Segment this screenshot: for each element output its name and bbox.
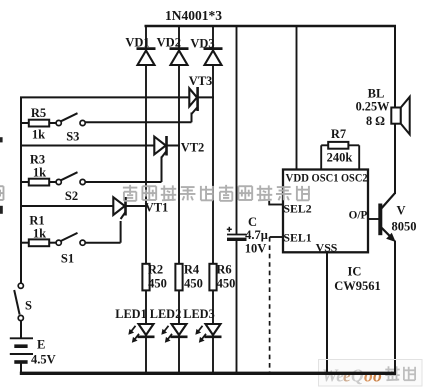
label 1N4001*3 bbox=[165, 8, 222, 23]
wire R2 to LED bbox=[145, 290, 147, 323]
label VD2 bbox=[157, 36, 181, 50]
op-amp IC CW9561 body bbox=[283, 170, 368, 253]
svg-text:8 Ω: 8 Ω bbox=[366, 114, 385, 128]
wire LED2 to ground rail bbox=[178, 337, 180, 373]
label pin SEL2 bbox=[283, 202, 311, 216]
WeeQoo watermark logo box bbox=[319, 360, 423, 387]
wire top rail to speaker bbox=[394, 25, 396, 108]
diode VD1 bbox=[137, 49, 156, 65]
wire S2 to VT2 gate bbox=[85, 157, 161, 183]
label LED2 bbox=[150, 307, 181, 321]
thyristor VT2 bbox=[154, 136, 166, 158]
wire emitter to ground rail bbox=[394, 241, 396, 374]
wire speaker to collector bbox=[394, 124, 396, 194]
switch S bbox=[14, 283, 23, 320]
label BL bbox=[368, 87, 385, 101]
wire top rail to VD1 bbox=[145, 25, 147, 49]
wire S1 to VT1 gate bbox=[85, 221, 120, 243]
svg-text:VD1: VD1 bbox=[125, 36, 149, 50]
svg-text:R4: R4 bbox=[184, 263, 200, 277]
svg-text:S1: S1 bbox=[61, 252, 74, 266]
label V bbox=[396, 204, 405, 218]
LED LED2 bbox=[162, 324, 188, 342]
svg-text:LED3: LED3 bbox=[183, 307, 214, 321]
svg-text:R3: R3 bbox=[30, 153, 45, 167]
svg-text:1k: 1k bbox=[33, 166, 46, 180]
label VT3 bbox=[189, 74, 213, 88]
label LED1 bbox=[115, 307, 146, 321]
label S2 bbox=[65, 189, 78, 203]
label pin VDD bbox=[286, 172, 310, 185]
svg-text:We: We bbox=[322, 366, 344, 386]
label IC bbox=[348, 265, 362, 279]
wire top rail to VDD pin bbox=[296, 25, 298, 170]
wire VT1 anode from left rail bbox=[20, 205, 114, 207]
label pin VSS bbox=[316, 241, 338, 255]
wire VT2 anode from left rail bbox=[20, 145, 155, 147]
label R4 value 450 bbox=[184, 277, 203, 291]
WeeQoo logo text bbox=[322, 366, 416, 386]
wire S3 to VT3 gate bbox=[85, 113, 191, 123]
svg-text:Q: Q bbox=[351, 366, 364, 386]
label S bbox=[25, 299, 32, 313]
label C bbox=[248, 215, 257, 229]
wire VD2 branch down bbox=[178, 64, 180, 264]
label R5 bbox=[31, 106, 46, 120]
svg-text:S: S bbox=[25, 299, 32, 313]
label pin OSC1 bbox=[312, 172, 339, 185]
watermark partial char at left edge bbox=[0, 186, 3, 200]
svg-text:o: o bbox=[373, 366, 382, 386]
label VD1 bbox=[125, 36, 149, 50]
label R3 value 1k bbox=[33, 166, 46, 180]
wire top rail to capacitor C bbox=[236, 25, 238, 234]
label V part 8050 bbox=[392, 220, 417, 234]
label VD3 bbox=[190, 37, 214, 51]
label VT2 bbox=[181, 141, 205, 155]
label S1 bbox=[61, 252, 74, 266]
svg-text:10V: 10V bbox=[245, 242, 267, 256]
label pin SEL1 bbox=[283, 231, 311, 245]
thyristor VT3 bbox=[189, 87, 197, 114]
svg-text:0.25W: 0.25W bbox=[356, 100, 391, 114]
wire VD1 branch down bbox=[145, 64, 147, 264]
scan speck 2 bbox=[0, 206, 3, 214]
wire top rail to VD2 bbox=[178, 25, 180, 49]
thyristor VT1 bbox=[113, 197, 125, 219]
diode VD3 bbox=[204, 49, 223, 65]
label pin OSC2 bbox=[341, 172, 368, 185]
wire left rail to R1 bbox=[20, 242, 29, 244]
svg-text:1k: 1k bbox=[33, 227, 46, 241]
svg-text:VDD: VDD bbox=[286, 172, 310, 185]
svg-text:V: V bbox=[396, 204, 405, 218]
svg-text:SEL2: SEL2 bbox=[283, 202, 311, 216]
LED LED3 bbox=[196, 324, 222, 342]
svg-text:4.7μ: 4.7μ bbox=[245, 228, 268, 242]
svg-text:S2: S2 bbox=[65, 189, 78, 203]
label S3 bbox=[66, 130, 79, 144]
wire top rail to VD3 bbox=[212, 25, 214, 49]
svg-text:VD2: VD2 bbox=[157, 36, 181, 50]
svg-text:4.5V: 4.5V bbox=[31, 353, 56, 367]
label VT1 bbox=[145, 201, 169, 215]
svg-text:VD3: VD3 bbox=[190, 37, 214, 51]
label R1 bbox=[29, 214, 44, 228]
wire R5 to S3 bbox=[49, 122, 56, 124]
label pin O/P bbox=[349, 210, 368, 222]
svg-text:1k: 1k bbox=[32, 128, 45, 142]
wire R1 to S1 bbox=[49, 242, 56, 244]
label R6 bbox=[216, 263, 231, 277]
wire VT2 cathode to VD2 branch bbox=[167, 145, 181, 147]
wire left rail bbox=[20, 97, 22, 284]
svg-text:LED2: LED2 bbox=[150, 307, 181, 321]
svg-text:450: 450 bbox=[148, 277, 167, 291]
label R4 bbox=[184, 263, 200, 277]
wire bottom ground rail bbox=[20, 372, 396, 375]
wire emitter over logo segment bbox=[394, 360, 396, 373]
resistor R7 bbox=[328, 142, 348, 149]
wire capacitor to ground rail bbox=[236, 241, 238, 373]
wire SEL1 stub bbox=[270, 236, 283, 238]
wire R4 to LED bbox=[178, 290, 180, 323]
label R2 bbox=[148, 263, 163, 277]
svg-text:240k: 240k bbox=[327, 151, 353, 165]
wire battery to ground rail bbox=[20, 362, 22, 373]
svg-text:e: e bbox=[343, 366, 351, 386]
wire LED1 to ground rail bbox=[145, 337, 147, 373]
svg-text:R1: R1 bbox=[29, 214, 44, 228]
wire VT1 cathode to VD1 branch bbox=[126, 205, 148, 207]
svg-text:450: 450 bbox=[217, 277, 236, 291]
label IC part CW9561 bbox=[334, 279, 381, 293]
diode VD2 bbox=[170, 49, 189, 65]
svg-text:R5: R5 bbox=[31, 106, 46, 120]
svg-text:O/P: O/P bbox=[349, 210, 368, 222]
svg-text:R6: R6 bbox=[216, 263, 231, 277]
wire top supply rail bbox=[145, 25, 397, 28]
svg-text:SEL1: SEL1 bbox=[283, 231, 311, 245]
svg-text:IC: IC bbox=[348, 265, 362, 279]
resistor R2 bbox=[142, 264, 149, 291]
wire dashed SEL1 to ground rail bbox=[269, 237, 271, 373]
label LED3 bbox=[183, 307, 214, 321]
LED LED1 bbox=[129, 324, 155, 342]
svg-text:BL: BL bbox=[368, 87, 385, 101]
label R6 value 450 bbox=[217, 277, 236, 291]
battery E bbox=[10, 338, 33, 362]
wire VT3 cathode to VD3 branch bbox=[198, 96, 215, 98]
svg-text:o: o bbox=[364, 366, 373, 386]
label C value 4.7u bbox=[245, 228, 268, 242]
wire OSC1 pin bbox=[321, 145, 328, 170]
switch S1 bbox=[56, 233, 85, 245]
svg-text:VT3: VT3 bbox=[189, 74, 213, 88]
speaker BL bbox=[391, 97, 409, 135]
label BL impedance 8 ohm bbox=[366, 114, 385, 128]
wire ground rail over logo bbox=[318, 372, 396, 375]
wire LED3 to ground rail bbox=[212, 337, 214, 373]
resistor R1 bbox=[29, 239, 49, 246]
label E bbox=[37, 338, 45, 352]
wire switch S to battery bbox=[20, 321, 22, 338]
wire left rail to R3 bbox=[20, 181, 29, 183]
wire VD3 branch down bbox=[212, 64, 214, 264]
svg-text:1N4001*3: 1N4001*3 bbox=[165, 8, 222, 23]
wire OSC2 pin bbox=[348, 145, 359, 170]
transistor V 8050 bbox=[379, 193, 395, 241]
svg-text:OSC1: OSC1 bbox=[312, 172, 339, 185]
wire VT3 anode from left rail bbox=[20, 96, 190, 98]
resistor R4 bbox=[175, 264, 182, 291]
label R3 bbox=[30, 153, 45, 167]
label E voltage 4.5V bbox=[31, 353, 56, 367]
svg-text:R2: R2 bbox=[148, 263, 163, 277]
svg-text:VT1: VT1 bbox=[145, 201, 169, 215]
svg-text:S3: S3 bbox=[66, 130, 79, 144]
wire SEL2 stub bbox=[269, 201, 283, 206]
capacitor C bbox=[227, 227, 247, 240]
label C voltage 10V bbox=[245, 242, 267, 256]
switch S2 bbox=[56, 172, 85, 184]
svg-text:E: E bbox=[37, 338, 45, 352]
label R1 value 1k bbox=[33, 227, 46, 241]
svg-text:R7: R7 bbox=[331, 127, 346, 141]
label R5 value 1k bbox=[32, 128, 45, 142]
svg-text:OSC2: OSC2 bbox=[341, 172, 368, 185]
svg-text:450: 450 bbox=[184, 277, 203, 291]
label R7 value 240k bbox=[327, 151, 353, 165]
svg-text:CW9561: CW9561 bbox=[334, 279, 381, 293]
wire O/P to transistor base bbox=[368, 218, 379, 220]
svg-text:C: C bbox=[248, 215, 257, 229]
svg-text:8050: 8050 bbox=[392, 220, 417, 234]
wire left rail to R5 bbox=[20, 122, 29, 124]
resistor R5 bbox=[29, 120, 49, 127]
wire R3 to S2 bbox=[49, 181, 56, 183]
wire VSS over logo segment bbox=[326, 360, 328, 373]
svg-text:LED1: LED1 bbox=[115, 307, 146, 321]
resistor R6 bbox=[209, 264, 216, 291]
resistor R3 bbox=[29, 179, 49, 186]
label BL power 0.25W bbox=[356, 100, 391, 114]
label R2 value 450 bbox=[148, 277, 167, 291]
label R7 bbox=[331, 127, 346, 141]
svg-text:VT2: VT2 bbox=[181, 141, 205, 155]
switch S3 bbox=[56, 113, 85, 125]
wire VSS pin to ground rail bbox=[326, 252, 328, 373]
wire R6 to LED bbox=[212, 290, 214, 323]
watermark text line bbox=[123, 185, 310, 201]
scan speck 1 bbox=[0, 137, 3, 142]
